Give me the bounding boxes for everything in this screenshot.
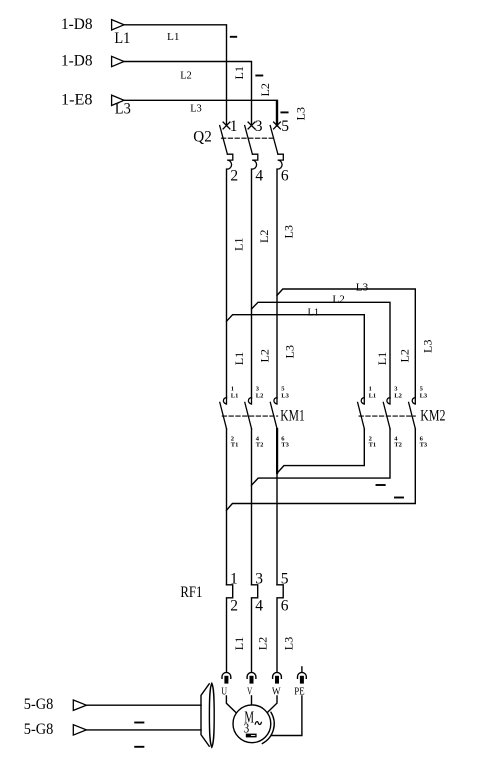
svg-text:5: 5 [420,385,424,392]
svg-text:L1: L1 [232,637,246,651]
breaker Q2 pole 3 terminal x mark [274,122,281,129]
cable shield horn [201,684,209,746]
svg-text:L3: L3 [421,340,435,354]
svg-text:2: 2 [230,168,238,185]
svg-text:T3: T3 [281,442,289,449]
wire phase2 vertical Q2 to KM1 [251,169,253,398]
svg-text:L3: L3 [281,393,289,400]
breaker Q2 pole 1 terminal x mark [223,122,230,129]
connector terminal X1 (triangle) [112,20,124,30]
breaker Q2 pole 2 blade [245,126,253,155]
motor M1 circle [233,705,271,743]
wire branch L2 to KM2 [252,302,391,398]
svg-text:L3: L3 [420,393,428,400]
svg-text:1: 1 [231,385,234,392]
svg-text:T2: T2 [256,442,264,449]
wire tick L3 [281,111,287,113]
svg-text:RF1: RF1 [180,584,202,601]
wire L2 top feed [124,62,252,126]
svg-text:PE: PE [294,685,305,697]
svg-text:3: 3 [394,385,398,392]
svg-text:1-D8: 1-D8 [61,16,93,33]
breaker Q2 pole 2 trip element [252,154,258,169]
svg-text:1: 1 [230,571,238,588]
motor nameplate black bar [246,734,257,738]
KM2 mechanical linkage dashed [359,415,415,417]
svg-text:L2: L2 [258,83,272,97]
svg-text:1: 1 [369,385,372,392]
wire KM1 T2 down to RF1 [251,429,253,585]
breaker Q2 pole 3 blade [270,126,278,155]
wire tick on T2 crossover [377,484,385,486]
svg-text:T1: T1 [369,442,377,449]
wire KM2 T2 to phase2 [252,429,391,485]
svg-text:L2: L2 [256,637,270,651]
wire V to motor [251,696,253,705]
wire phase3 vertical Q2 to KM1 [276,169,278,398]
svg-text:L1: L1 [232,238,246,252]
terminal PE pin [300,676,304,684]
svg-text:L1: L1 [369,393,377,400]
svg-text:4: 4 [255,597,263,614]
svg-text:Q2: Q2 [193,129,212,146]
wire branch L1 to KM2 [227,315,365,398]
wire L3 top feed [124,100,277,125]
wire phase3 bold segment at Q2 corner [276,101,278,126]
KM1 pole3 contact [270,398,277,429]
svg-text:L1: L1 [232,352,246,366]
svg-text:L2: L2 [394,393,402,400]
svg-text:L1: L1 [308,308,320,319]
wire KM1 T3 down to RF1 [276,429,278,585]
svg-text:3: 3 [255,118,263,135]
KM1 pole1 contact [220,398,227,429]
svg-text:1-D8: 1-D8 [61,53,93,70]
svg-text:2: 2 [230,597,238,614]
wire PE stub [301,667,303,672]
terminal U pin [224,676,228,684]
connector terminal X5 (triangle) [73,725,86,735]
wire phase3 bold segment below KM1 [276,429,278,473]
svg-text:L2: L2 [180,71,192,82]
motor frame PE arc [262,712,274,743]
svg-text:3: 3 [256,385,260,392]
svg-text:1: 1 [230,118,238,135]
svg-text:L1: L1 [375,352,389,366]
svg-text:L3: L3 [190,104,202,115]
svg-text:5-G8: 5-G8 [24,721,54,738]
cable shield lens [209,683,214,747]
KM2 pole1 contact [358,398,365,429]
svg-text:5: 5 [281,118,289,135]
wire KM2 T1 crossover to phase3 [277,429,364,473]
wire phase1 vertical Q2 to KM1 [226,169,228,398]
terminal U socket arc [222,672,231,678]
svg-text:5-G8: 5-G8 [24,696,54,713]
terminal PE socket arc [298,672,307,678]
KM2 pole3 contact [409,398,416,429]
breaker Q2 pole 2 terminal x mark [248,122,255,129]
svg-text:L1: L1 [167,32,180,43]
connector terminal X2 (triangle) [112,56,124,66]
breaker Q2 pole 3 trip element [278,154,284,169]
svg-text:KM1: KM1 [280,407,305,424]
wire shield row2 [86,729,201,731]
KM1 mechanical linkage dashed [222,415,277,417]
svg-text:L3: L3 [294,107,308,121]
KM1 pole2 contact [245,398,252,429]
connector terminal X4 (triangle) [73,700,86,710]
svg-text:L3: L3 [281,637,295,651]
motor tilde [255,722,261,725]
svg-text:L2: L2 [332,295,344,306]
wire shield row1 [86,704,201,706]
svg-text:5: 5 [281,571,289,588]
svg-text:L3: L3 [115,100,131,117]
KM2 pole2 contact [383,398,390,429]
wire tick L2 [256,75,262,77]
wire tick shield row1 [135,722,143,724]
wire L1 top feed [124,25,227,126]
svg-text:KM2: KM2 [420,407,445,424]
RF1 pole1 heater element [227,585,233,672]
svg-text:4: 4 [255,168,263,185]
svg-text:L2: L2 [398,349,412,363]
svg-text:3: 3 [255,571,263,588]
svg-text:L1: L1 [114,30,130,47]
breaker Q2 pole 1 trip element [227,154,233,169]
wire branch L3 to KM2 [277,289,415,398]
connector terminal X3 (triangle) [112,95,124,105]
svg-text:T3: T3 [420,442,428,449]
svg-text:L2: L2 [257,230,271,244]
wire KM2 T3 crossover to phase1 [227,429,416,510]
svg-text:5: 5 [281,385,285,392]
svg-text:T2: T2 [394,442,402,449]
RF1 pole2 heater element [252,585,258,672]
wire KM1 T1 down to RF1 [226,429,228,585]
svg-text:L2: L2 [256,393,264,400]
wire tick shield row2 [135,746,143,748]
svg-text:L2: L2 [257,349,271,363]
terminal W pin [275,676,279,684]
svg-text:L1: L1 [232,66,246,80]
svg-text:L3: L3 [282,225,296,239]
wire U to motor [226,696,235,713]
terminal V socket arc [247,672,256,678]
wire tick L1 [231,36,236,38]
svg-text:3: 3 [244,721,250,736]
wire W to motor [268,696,277,712]
RF1 pole3 heater element [277,585,283,672]
svg-text:L1: L1 [231,393,239,400]
wire tick on T3 crossover [395,497,403,499]
svg-text:L3: L3 [356,283,368,294]
terminal V pin [250,676,254,684]
svg-text:6: 6 [281,597,289,614]
svg-text:6: 6 [281,168,289,185]
wire PE to motor frame [272,696,302,736]
svg-text:L3: L3 [282,345,296,359]
breaker Q2 mechanical linkage dashed [222,137,274,139]
terminal W socket arc [273,672,282,678]
svg-text:T1: T1 [231,442,239,449]
breaker Q2 pole 1 blade [220,126,228,155]
svg-text:1-E8: 1-E8 [61,91,93,108]
